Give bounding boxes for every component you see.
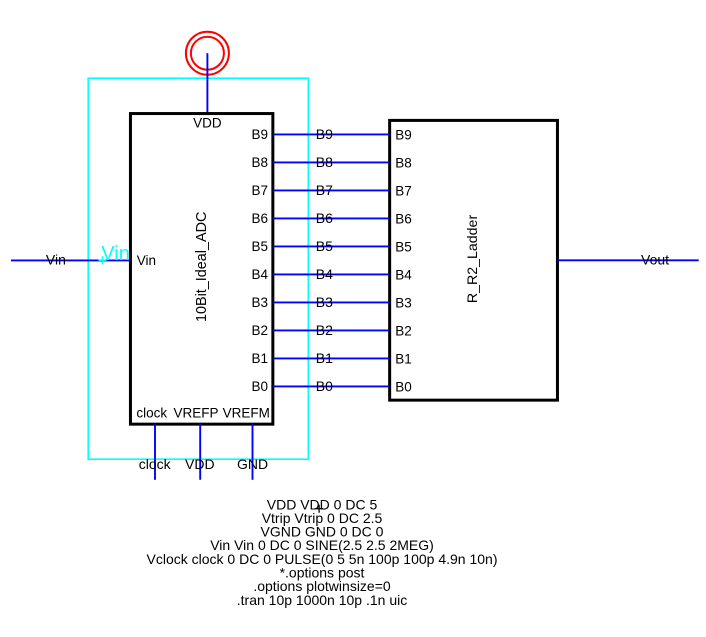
svg-text:B4: B4 <box>316 266 333 282</box>
wire GND (ADC bottom pin VREFM) <box>252 424 254 480</box>
svg-text:R_R2_Ladder: R_R2_Ladder <box>465 215 481 304</box>
svg-text:B7: B7 <box>316 182 333 198</box>
svg-text:B3: B3 <box>316 294 333 310</box>
svg-text:VDD: VDD <box>193 116 222 131</box>
svg-text:B3: B3 <box>395 295 412 310</box>
svg-text:B1: B1 <box>395 351 412 366</box>
node Vin highlight cross (cyan) <box>98 256 106 264</box>
wire VDD (power to ADC top pin) <box>206 53 208 114</box>
wire B5 <box>273 245 390 247</box>
svg-text:B6: B6 <box>251 211 268 226</box>
svg-text:GND: GND <box>237 456 268 472</box>
IC U1 10Bit_Ideal_ADC box <box>130 114 272 425</box>
spice directive text block origin cross <box>315 505 323 513</box>
wire B7 <box>273 189 390 191</box>
svg-text:B4: B4 <box>251 267 268 282</box>
wire clock (ADC bottom pin) <box>154 424 156 480</box>
wire B6 <box>273 217 390 219</box>
power symbol VDD (red double circle) <box>186 32 229 75</box>
svg-text:B6: B6 <box>316 210 333 226</box>
wire B0 <box>273 385 390 387</box>
wire B1 <box>273 357 390 359</box>
svg-text:VREFP: VREFP <box>174 405 219 420</box>
svg-text:B2: B2 <box>316 322 333 338</box>
svg-text:VREFM: VREFM <box>223 405 270 420</box>
svg-text:B4: B4 <box>395 267 412 282</box>
svg-text:Vin: Vin <box>137 253 156 268</box>
svg-text:B5: B5 <box>251 239 268 254</box>
svg-text:B2: B2 <box>395 323 412 338</box>
svg-text:B9: B9 <box>251 127 268 142</box>
svg-text:B5: B5 <box>316 238 333 254</box>
svg-text:B9: B9 <box>316 126 333 142</box>
svg-text:10Bit_Ideal_ADC: 10Bit_Ideal_ADC <box>194 212 210 322</box>
svg-text:B8: B8 <box>316 154 333 170</box>
svg-text:Vin: Vin <box>46 252 66 268</box>
wire B2 <box>273 329 390 331</box>
svg-text:B9: B9 <box>395 127 412 142</box>
svg-text:VDD: VDD <box>185 456 215 472</box>
svg-text:B7: B7 <box>251 183 268 198</box>
wire B8 <box>273 161 390 163</box>
svg-text:Vout: Vout <box>641 252 669 268</box>
highlight box (cyan selection rectangle) <box>88 78 308 459</box>
svg-text:B0: B0 <box>395 379 412 394</box>
svg-text:B8: B8 <box>251 155 268 170</box>
svg-text:B3: B3 <box>251 295 268 310</box>
wire B4 <box>273 273 390 275</box>
wire Vin (left input) <box>11 259 131 261</box>
svg-text:B1: B1 <box>251 351 268 366</box>
svg-text:B0: B0 <box>251 379 268 394</box>
wire B9 <box>273 133 390 135</box>
svg-text:.tran 10p 1000n 10p .1n uic: .tran 10p 1000n 10p .1n uic <box>237 592 407 608</box>
svg-text:B1: B1 <box>316 350 333 366</box>
IC U2 R_R2_Ladder box <box>390 120 558 400</box>
svg-text:clock: clock <box>136 405 167 420</box>
wire B3 <box>273 301 390 303</box>
svg-text:B5: B5 <box>395 239 412 254</box>
wire Vout (ladder output) <box>558 259 699 261</box>
wire VDD (ADC bottom pin VREFP) <box>199 424 201 480</box>
svg-text:B8: B8 <box>395 155 412 170</box>
svg-text:clock: clock <box>139 456 172 472</box>
svg-text:B7: B7 <box>395 183 412 198</box>
svg-text:Vin: Vin <box>101 243 130 265</box>
svg-text:B0: B0 <box>316 378 333 394</box>
svg-text:B6: B6 <box>395 211 412 226</box>
svg-text:B2: B2 <box>251 323 268 338</box>
